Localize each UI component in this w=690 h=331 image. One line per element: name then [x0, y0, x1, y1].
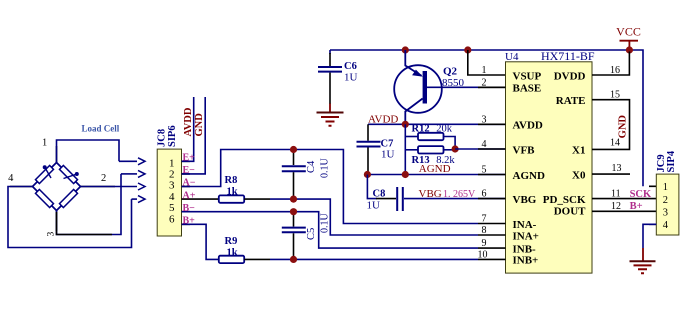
wire load cell terminal 1 — [42, 138, 145, 165]
svg-text:C6: C6 — [344, 61, 357, 72]
junction AGND-R13 dot — [402, 171, 409, 178]
svg-text:7: 7 — [482, 214, 487, 225]
svg-text:3: 3 — [482, 114, 487, 125]
svg-text:C8: C8 — [373, 188, 386, 199]
junction C5 bottom dot — [290, 256, 297, 263]
svg-text:1: 1 — [169, 157, 175, 169]
junction C4 top dot — [290, 146, 297, 153]
svg-text:1: 1 — [482, 65, 487, 76]
svg-text:INA-: INA- — [513, 219, 537, 231]
capacitor C8 — [367, 175, 506, 212]
svg-text:INB-: INB- — [513, 243, 537, 255]
svg-text:14: 14 — [610, 138, 620, 149]
junction emitter-rail dot — [402, 46, 409, 53]
svg-text:E−: E− — [183, 165, 196, 176]
svg-text:1U: 1U — [344, 72, 358, 84]
U4 left pin names — [513, 70, 545, 266]
svg-text:VBG: VBG — [513, 194, 537, 206]
svg-text:X1: X1 — [572, 145, 585, 157]
svg-text:U4: U4 — [505, 51, 519, 63]
svg-text:INB+: INB+ — [513, 255, 539, 267]
svg-text:HX711-BF: HX711-BF — [541, 49, 595, 63]
svg-text:SIP4: SIP4 — [666, 150, 677, 172]
svg-text:5: 5 — [482, 165, 487, 176]
junction VCC dot — [626, 46, 633, 53]
svg-text:1U: 1U — [367, 199, 381, 211]
svg-text:AVDD: AVDD — [513, 120, 543, 132]
svg-text:6: 6 — [169, 214, 175, 226]
svg-text:RATE: RATE — [556, 95, 586, 107]
wire AVDD-AGND vertical — [404, 124, 406, 174]
svg-text:VCC: VCC — [616, 25, 641, 39]
net B+ / resistor R9 — [182, 216, 479, 264]
power VCC — [616, 25, 641, 51]
svg-text:INA+: INA+ — [513, 230, 539, 242]
svg-text:Q2: Q2 — [443, 66, 458, 78]
capacitor C4 — [282, 150, 331, 200]
svg-text:0.1U: 0.1U — [320, 158, 331, 179]
svg-text:1k: 1k — [227, 186, 238, 197]
svg-text:4: 4 — [663, 220, 669, 231]
gauge top-right — [59, 165, 77, 183]
svg-text:3: 3 — [47, 232, 57, 237]
svg-text:11: 11 — [611, 189, 621, 200]
ground bottom right — [630, 248, 656, 273]
load cell bridge — [33, 124, 120, 211]
wire VSUP drop to pin1 — [468, 50, 506, 75]
svg-text:20k: 20k — [436, 123, 453, 134]
svg-text:1. 265V: 1. 265V — [443, 189, 476, 200]
wire JC9 pin4 to ground — [643, 224, 656, 248]
svg-text:Load Cell: Load Cell — [82, 124, 120, 134]
svg-text:15: 15 — [610, 90, 620, 101]
svg-text:VFB: VFB — [513, 144, 536, 156]
U4 right pin numbers — [610, 65, 622, 212]
svg-text:A−: A− — [183, 178, 196, 189]
svg-text:AVDD: AVDD — [183, 107, 194, 136]
wire VFB to pin4 — [455, 148, 505, 150]
svg-text:SCK: SCK — [630, 189, 652, 200]
svg-text:1U: 1U — [381, 148, 395, 160]
svg-text:B+: B+ — [630, 201, 643, 212]
pin E+ wire to AVDD — [182, 97, 196, 164]
svg-text:E+: E+ — [183, 153, 196, 164]
gauge top-left — [35, 165, 53, 183]
gauge bottom-right — [59, 189, 77, 207]
junction AVDD dot — [402, 121, 409, 128]
svg-text:16: 16 — [610, 65, 620, 76]
svg-text:AGND: AGND — [419, 163, 451, 175]
svg-text:12: 12 — [611, 201, 621, 212]
svg-text:8: 8 — [482, 225, 487, 236]
gauge bottom-left — [35, 189, 53, 207]
connector JC8 — [157, 149, 181, 236]
svg-text:GND: GND — [194, 113, 205, 137]
svg-text:R12: R12 — [412, 123, 430, 134]
node AVDD — [368, 113, 506, 125]
arrow top-left gauge — [45, 168, 51, 178]
U4 pin12 wire DOUT — [592, 210, 656, 212]
svg-text:4: 4 — [8, 173, 14, 184]
U4 pin16 wire to VCC — [592, 52, 629, 76]
capacitor C7 — [357, 124, 395, 174]
wire load cell terminal 4 — [8, 173, 145, 248]
svg-text:VSUP: VSUP — [513, 70, 542, 82]
JC9 pin stubs — [649, 186, 656, 224]
svg-text:2: 2 — [663, 195, 668, 206]
svg-text:PD_SCK: PD_SCK — [543, 194, 586, 206]
junction C5 top dot — [290, 208, 297, 215]
label JC9 SIP4 — [656, 150, 677, 172]
svg-text:4: 4 — [482, 139, 487, 150]
node AGND — [367, 163, 505, 175]
junction VFB dot — [452, 145, 459, 152]
resistor R12 — [405, 123, 455, 149]
svg-text:C4: C4 — [306, 160, 317, 173]
resistor R13 — [405, 146, 455, 166]
svg-text:X0: X0 — [572, 169, 586, 181]
node VSUP top rail — [330, 50, 643, 186]
svg-text:10: 10 — [478, 249, 488, 260]
svg-text:2: 2 — [482, 77, 487, 88]
junction AGND-C7 dot — [364, 171, 371, 178]
svg-text:BASE: BASE — [513, 83, 542, 95]
svg-text:2: 2 — [101, 173, 106, 184]
IC U4 box — [505, 49, 595, 273]
junction C4 bottom dot — [290, 196, 297, 203]
capacitor C5 — [282, 212, 331, 260]
svg-text:3: 3 — [169, 180, 175, 192]
svg-text:B+: B+ — [183, 216, 196, 227]
capacitor C6 — [318, 50, 358, 104]
wire load cell terminal 3 — [47, 170, 146, 236]
U4 left pin numbers — [478, 65, 488, 260]
U4 pin15-14 GND loop — [592, 100, 630, 150]
svg-text:1: 1 — [663, 182, 668, 193]
arrow top-right gauge — [64, 174, 77, 178]
wire load cell terminal 2 — [81, 173, 146, 190]
net A- wire JC8 pin3 to U4 pin7 — [182, 150, 479, 224]
net A+ / resistor R8 — [182, 175, 479, 235]
label JC8 SIP6 — [156, 125, 178, 147]
wire base stub to pin2 — [478, 86, 506, 88]
svg-text:9: 9 — [482, 238, 487, 249]
ground below C6 — [317, 104, 344, 126]
svg-text:13: 13 — [612, 163, 622, 174]
JC8 pin stubs — [182, 161, 191, 224]
node VBG label — [419, 188, 477, 200]
svg-text:DVDD: DVDD — [554, 70, 586, 82]
svg-text:DOUT: DOUT — [554, 206, 586, 218]
U4 pin11 wire SCK — [592, 198, 656, 200]
svg-text:1: 1 — [42, 138, 47, 149]
svg-text:1k: 1k — [227, 247, 238, 258]
U4 left pin stubs — [478, 87, 506, 259]
svg-text:GND: GND — [618, 115, 629, 139]
svg-text:R9: R9 — [225, 236, 238, 247]
svg-text:B−: B− — [183, 203, 196, 214]
svg-text:SIP6: SIP6 — [167, 125, 178, 147]
svg-text:6: 6 — [482, 189, 487, 200]
bridge pin stubs black — [10, 146, 115, 231]
svg-text:AGND: AGND — [513, 170, 545, 182]
net B- wire JC8 pin5 to U4 pin9 — [182, 203, 479, 248]
svg-text:VBG: VBG — [419, 188, 442, 200]
svg-text:A+: A+ — [183, 190, 196, 201]
junction VSUP-drop dot — [464, 46, 471, 53]
connector JC9 — [656, 174, 679, 235]
svg-text:3: 3 — [663, 208, 668, 219]
svg-text:0.1U: 0.1U — [320, 213, 331, 234]
pin E- wire to GND — [182, 97, 206, 176]
svg-text:JC8: JC8 — [156, 129, 167, 147]
svg-text:5: 5 — [169, 202, 175, 214]
transistor Q2 — [394, 50, 480, 124]
U4 pin13 stub — [592, 173, 630, 175]
U4 right pin names — [543, 70, 586, 217]
svg-text:R8: R8 — [225, 175, 238, 186]
svg-text:C5: C5 — [306, 228, 317, 240]
svg-text:8550: 8550 — [442, 77, 465, 89]
